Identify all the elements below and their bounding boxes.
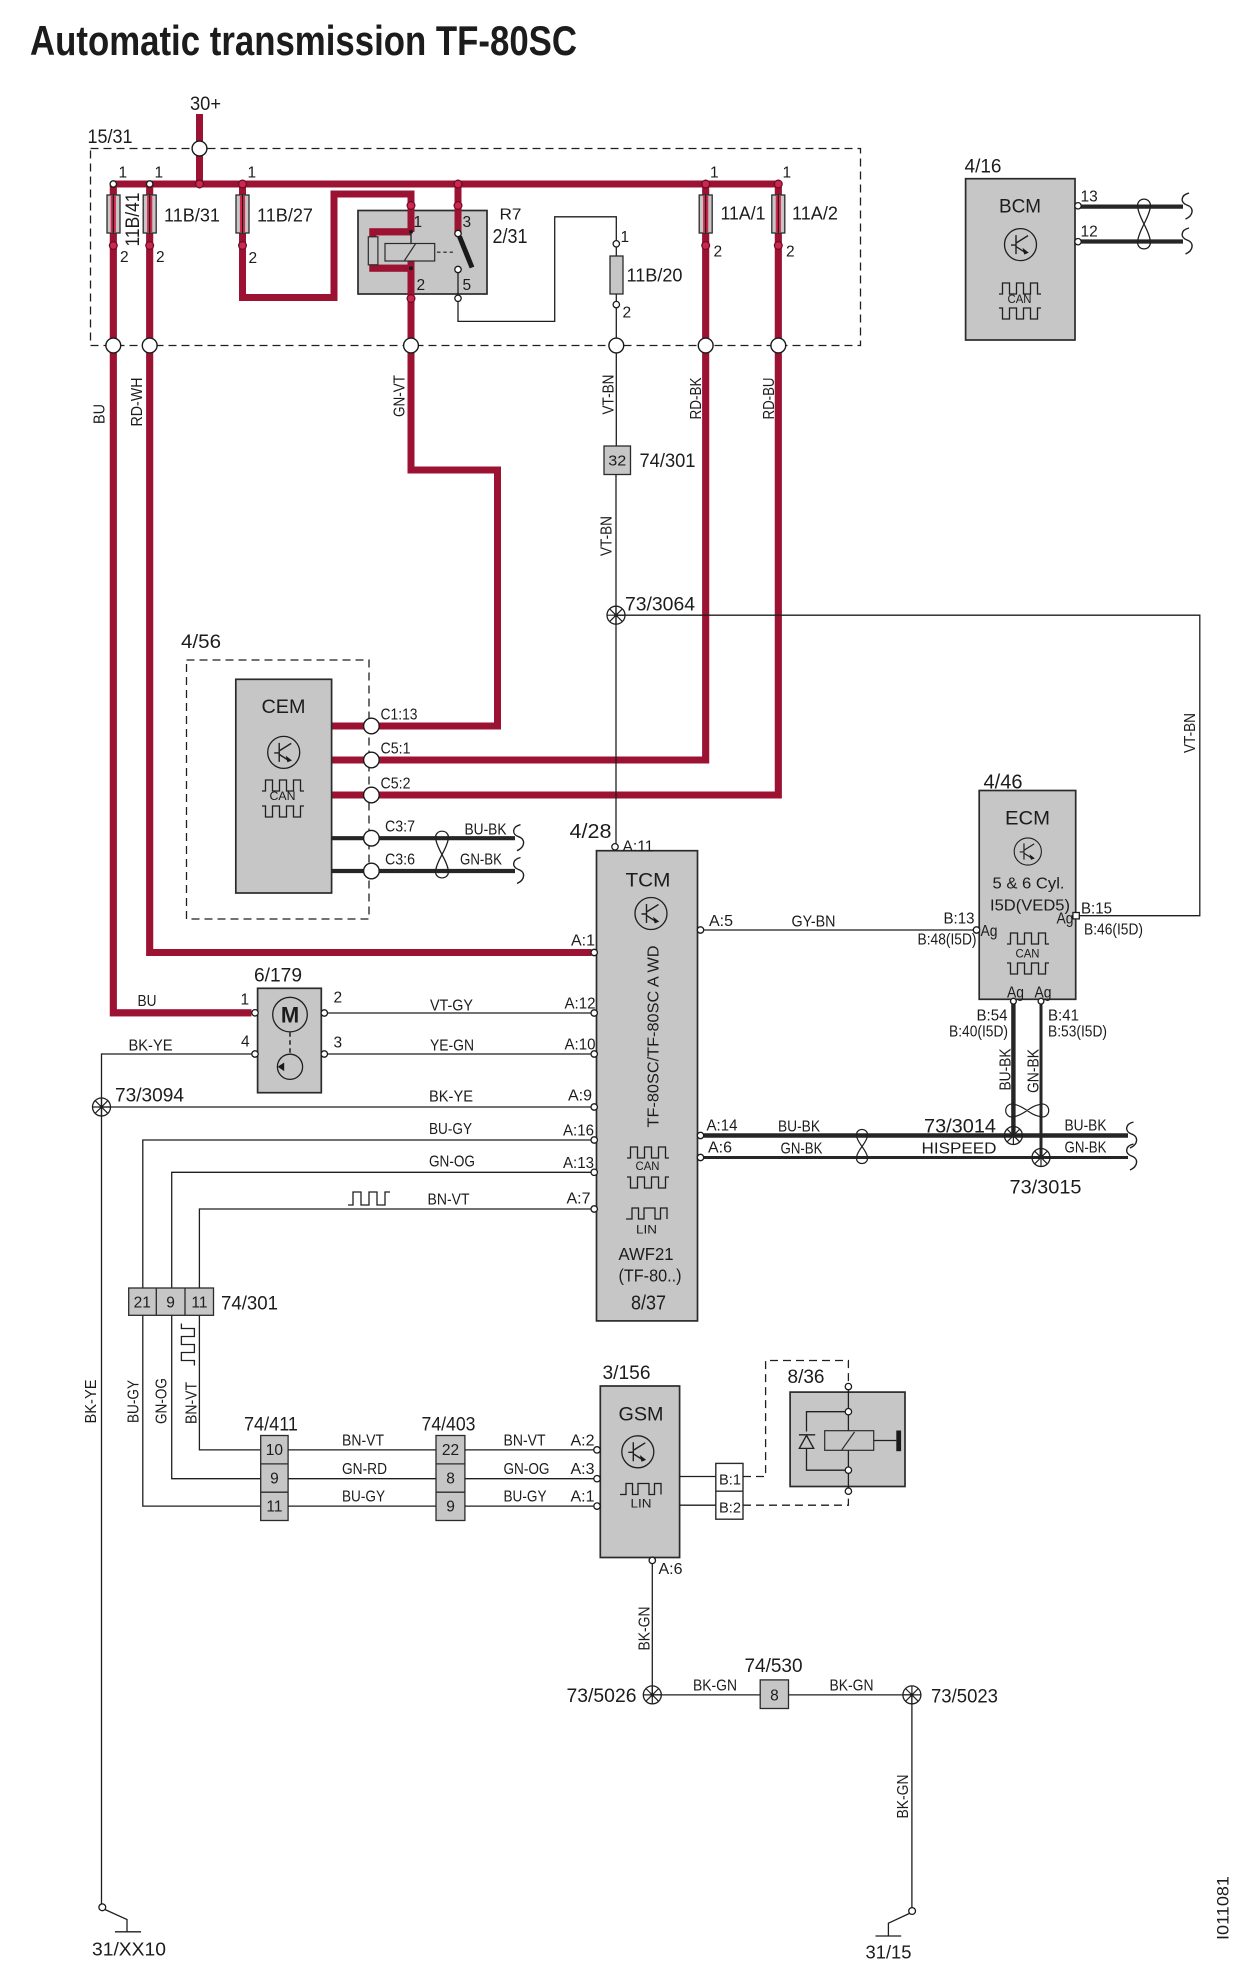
node 73/3015 [1032, 1149, 1050, 1167]
svg-text:B:46(I5D): B:46(I5D) [1084, 922, 1143, 939]
pump motor dashed shaft [289, 1032, 291, 1054]
node 73/3014 [1004, 1127, 1022, 1145]
svg-text:BK-YE: BK-YE [129, 1038, 173, 1055]
wire fuse 11B/27 branch to relay R7 pin 1 [243, 184, 412, 298]
fuse 11B/20 pin1 terminal [613, 241, 619, 247]
svg-text:GN-BK: GN-BK [460, 852, 503, 869]
svg-text:B:41: B:41 [1048, 1008, 1079, 1025]
big terminal RD-BK on dashed box bottom [698, 338, 713, 353]
TCM U4/28 body [597, 851, 698, 1321]
svg-text:BU-BK: BU-BK [998, 1048, 1015, 1091]
svg-text:BK-GN: BK-GN [895, 1775, 912, 1819]
svg-text:BU-BK: BU-BK [778, 1119, 821, 1136]
svg-text:C3:7: C3:7 [385, 819, 415, 836]
svg-text:GN-OG: GN-OG [429, 1154, 475, 1171]
relay 8/36 terminals [845, 1383, 851, 1389]
svg-text:4/16: 4/16 [965, 157, 1002, 178]
TCM pin A:11 terminal [612, 844, 618, 850]
wire end curl GN-BK right [1127, 1144, 1137, 1170]
pump motor pin terminals [252, 1010, 258, 1016]
svg-text:BU-BK: BU-BK [1065, 1118, 1108, 1135]
junction dot relay pin3 branch [454, 180, 462, 188]
TCM ECU symbol [635, 898, 667, 930]
ECM U4/46 body [979, 791, 1075, 1000]
wire BK-YE node down to ground [101, 1107, 103, 1904]
ECM bottom pin wires BU-BK / GN-BK [1011, 999, 1015, 1135]
CEM ECU symbol [268, 736, 300, 768]
wire fuse 11B/41 branch + BU feed to pump motor [113, 184, 251, 1013]
svg-text:CAN: CAN [1008, 292, 1032, 306]
terminal 11B/41 pin1 [110, 181, 116, 187]
svg-text:BK-GN: BK-GN [693, 1678, 737, 1695]
svg-text:GN-BK: GN-BK [781, 1141, 824, 1158]
wire BU-GY below 74/301 to 74/411 pin11 [143, 1316, 261, 1507]
relay R7 resistor element [368, 237, 378, 265]
junction dot 11A/1 pin2 [702, 242, 710, 250]
relay R7 coil junction dots [409, 230, 413, 234]
svg-text:15/31: 15/31 [88, 127, 133, 148]
wire fuse 11A/2 + RD-BU to CEM C5:2 [332, 184, 779, 795]
TCM pin A:9 terminal [591, 1104, 597, 1110]
fuse 11B/41 wire re-stroke [111, 196, 116, 232]
CEM pin terminal C5:2 [364, 787, 380, 803]
junction dot 11A/2 pin2 [774, 242, 782, 250]
fuse 11B/20 pin2 terminal [613, 301, 619, 307]
svg-text:73/5026: 73/5026 [567, 1685, 637, 1707]
fuse 11B/31 body [143, 195, 156, 233]
relay R7 coil-switch dashed link [437, 251, 453, 253]
svg-text:B:13: B:13 [944, 911, 975, 928]
CEM pin terminal C5:1 [364, 752, 380, 768]
relay 8/36 diode [799, 1435, 815, 1449]
svg-text:C5:1: C5:1 [381, 741, 411, 758]
svg-text:YE-GN: YE-GN [430, 1038, 474, 1055]
ground 31/XX10 [99, 1904, 106, 1911]
svg-text:BK-GN: BK-GN [637, 1607, 654, 1651]
big terminal RD-WH on dashed box bottom [142, 338, 157, 353]
svg-text:BK-GN: BK-GN [830, 1678, 874, 1695]
svg-text:A:1: A:1 [571, 933, 595, 950]
svg-text:8/36: 8/36 [788, 1366, 825, 1388]
TCM LIN symbol [626, 1208, 667, 1219]
squarewave symbol on BN-VT wire [348, 1192, 390, 1205]
svg-text:BU-GY: BU-GY [429, 1121, 472, 1138]
svg-text:5: 5 [463, 277, 472, 294]
svg-text:A:6: A:6 [659, 1561, 683, 1578]
svg-text:A:6: A:6 [708, 1140, 732, 1157]
pump motor M circle [273, 997, 308, 1032]
wire end curl GN-BK [514, 858, 524, 884]
svg-text:I011081: I011081 [1214, 1876, 1233, 1940]
svg-text:LIN: LIN [636, 1223, 657, 1237]
ECM CAN symbol [1007, 933, 1049, 944]
svg-text:BU-GY: BU-GY [504, 1489, 547, 1506]
svg-text:BCM: BCM [999, 196, 1041, 218]
svg-text:1: 1 [248, 165, 257, 182]
relay R7 switch pivot terminal [455, 230, 461, 236]
svg-text:74/411: 74/411 [244, 1414, 298, 1436]
svg-text:GY-BN: GY-BN [792, 914, 836, 931]
big terminal 30+ on dashed box [192, 141, 207, 156]
relay R7 pin5 terminal [455, 295, 461, 301]
svg-text:A:3: A:3 [571, 1461, 595, 1478]
wire GY-BN TCM A:5 to ECM B:13 [704, 929, 974, 931]
wire relay R7 pin 2 GN-VT to CEM C1:13 [332, 262, 498, 727]
wires 74/403 to GSM [465, 1450, 594, 1506]
wire BK-YE motor pin4 to node 73/3094 [102, 1054, 252, 1107]
svg-text:GN-BK: GN-BK [1026, 1048, 1043, 1093]
svg-text:3/156: 3/156 [603, 1362, 651, 1384]
svg-text:TF-80SC/TF-80SC A WD: TF-80SC/TF-80SC A WD [646, 946, 663, 1128]
wire BN-VT to TCM A:7 [199, 1209, 591, 1288]
relay R7 pin5 wire [457, 273, 459, 295]
svg-text:74/301: 74/301 [221, 1293, 278, 1315]
svg-text:5 & 6 Cyl.: 5 & 6 Cyl. [993, 876, 1065, 893]
wire BK-GN node 73/5026 to 74/530 [652, 1694, 760, 1696]
svg-text:2: 2 [120, 249, 129, 266]
svg-text:Ag: Ag [1057, 911, 1074, 928]
svg-text:CEM: CEM [262, 696, 306, 718]
GSM LIN symbol [620, 1484, 661, 1495]
CEM pin terminal C3:7 [364, 830, 380, 846]
svg-text:4/28: 4/28 [570, 821, 612, 843]
svg-text:11B/31: 11B/31 [164, 205, 220, 226]
TCM CAN symbol [627, 1147, 669, 1158]
svg-text:1: 1 [119, 165, 128, 182]
svg-text:A:2: A:2 [571, 1433, 595, 1450]
big terminal VT-BN on dashed box bottom [609, 338, 624, 353]
svg-text:31/XX10: 31/XX10 [92, 1940, 166, 1960]
junction dot 11A/1 pin1 [702, 180, 710, 188]
svg-text:BU-GY: BU-GY [342, 1489, 385, 1506]
svg-text:A:14: A:14 [707, 1118, 738, 1135]
fuse 11B/20 internal wire [615, 247, 617, 301]
svg-text:2/31: 2/31 [493, 226, 528, 248]
svg-text:12: 12 [1081, 224, 1098, 241]
CEM U4/56 body [236, 679, 332, 893]
dashed wire B:1 to relay 8/36 coil top [743, 1361, 848, 1477]
svg-text:31/15: 31/15 [866, 1942, 912, 1963]
wire VT-BN from 11B/20 down [615, 308, 617, 446]
svg-text:73/3014: 73/3014 [924, 1116, 996, 1138]
wire fuse 11A/1 + RD-BK to CEM C5:1 [332, 184, 706, 760]
svg-text:BU: BU [92, 404, 109, 424]
wire relay R7 pin 3 from bus [455, 184, 462, 234]
svg-text:9: 9 [446, 1499, 455, 1516]
svg-text:1: 1 [155, 165, 164, 182]
wire BU-BK TCM A:14 CAN high [704, 1133, 1128, 1138]
BCM CAN symbol [999, 283, 1041, 294]
BCM pin 13 wire (CAN-H) [1080, 205, 1183, 209]
junction dot 30+ at bus [196, 180, 204, 188]
svg-text:BU: BU [138, 993, 157, 1010]
wire end curl BU-BK [514, 825, 524, 851]
svg-text:2: 2 [417, 277, 426, 294]
wire 30+ feed (red) [196, 114, 203, 184]
svg-text:11: 11 [191, 1295, 207, 1312]
svg-text:GN-BK: GN-BK [1065, 1140, 1108, 1157]
svg-text:VT-GY: VT-GY [430, 998, 473, 1015]
svg-text:74/530: 74/530 [745, 1655, 803, 1677]
TCM pin A:16 terminal [591, 1137, 597, 1143]
twisted pair symbol CEM C3 [436, 831, 449, 878]
svg-text:1: 1 [621, 229, 630, 246]
svg-text:B:15: B:15 [1081, 901, 1112, 918]
svg-text:B:1: B:1 [719, 1473, 741, 1489]
ground 31/15 [909, 1908, 916, 1915]
svg-text:GN-VT: GN-VT [392, 375, 409, 417]
svg-text:11B/20: 11B/20 [627, 265, 683, 286]
svg-text:6/179: 6/179 [254, 966, 302, 987]
GSM pin A:6 terminal [649, 1557, 655, 1563]
svg-text:BN-VT: BN-VT [428, 1192, 470, 1209]
svg-text:C1:13: C1:13 [381, 707, 418, 724]
svg-text:BK-YE: BK-YE [429, 1089, 473, 1106]
wire VT-BN from node 73/3064 to ECM B:15 [616, 615, 1200, 916]
svg-text:Ag: Ag [981, 923, 998, 940]
svg-text:4: 4 [241, 1034, 250, 1051]
relay R7 pin1 terminal dot [407, 202, 415, 210]
svg-text:B:53(I5D): B:53(I5D) [1048, 1024, 1107, 1041]
fuse 11A/1 body [699, 195, 712, 233]
relay R7 coil feed wire [410, 232, 412, 244]
svg-text:A:5: A:5 [709, 913, 733, 930]
svg-text:M: M [281, 1003, 299, 1028]
BCM pin 12 wire (CAN-L) [1080, 239, 1183, 243]
node 73/5023 [903, 1686, 921, 1704]
relay R7 pin3 terminal dot [454, 202, 462, 210]
GSM ECU symbol [622, 1436, 654, 1468]
svg-text:BU-BK: BU-BK [465, 822, 508, 839]
svg-text:22: 22 [442, 1442, 459, 1459]
svg-text:RD-WH: RD-WH [129, 378, 146, 427]
wire end curl BCM 12 [1182, 228, 1192, 254]
svg-text:AWF21: AWF21 [619, 1244, 674, 1264]
wire VT-GY motor pin2 to TCM A:12 [328, 1012, 592, 1014]
svg-text:CAN: CAN [1016, 947, 1040, 961]
svg-text:ECM: ECM [1005, 808, 1050, 830]
TCM pin A:5 terminal [697, 927, 703, 933]
svg-text:1: 1 [414, 214, 423, 231]
svg-text:73/5023: 73/5023 [931, 1686, 998, 1708]
wire relay pin5 to fuse 11B/20 [458, 217, 616, 322]
connector 74/301 row body [129, 1288, 214, 1315]
svg-text:1: 1 [241, 992, 250, 1009]
svg-text:BN-VT: BN-VT [504, 1433, 546, 1450]
svg-text:A:7: A:7 [567, 1191, 591, 1208]
relay 8/36 contact link and bar [874, 1440, 897, 1442]
svg-text:Ag: Ag [1007, 985, 1024, 1002]
twisted pair symbol BCM [1138, 199, 1151, 249]
svg-text:2: 2 [334, 990, 343, 1007]
svg-text:3: 3 [334, 1035, 343, 1052]
svg-text:A:16: A:16 [563, 1123, 594, 1140]
GSM pin terminals A:2 A:3 A:1 [594, 1447, 600, 1453]
svg-text:GN-OG: GN-OG [154, 1378, 171, 1424]
fuse 11B/27 body [236, 195, 249, 233]
TCM pin A:14 terminal [697, 1132, 703, 1138]
node 73/3064 [607, 606, 625, 624]
svg-text:RD-BK: RD-BK [688, 377, 705, 420]
TCM pin A:1 terminal [591, 949, 597, 955]
wire GN-OG to TCM A:13 [172, 1172, 592, 1288]
svg-text:GN-RD: GN-RD [342, 1461, 387, 1478]
svg-text:11: 11 [266, 1499, 282, 1516]
TCM pin A:13 terminal [591, 1169, 597, 1175]
CEM pin terminal C1:13 [364, 718, 380, 734]
TCM pin A:12 terminal [591, 1010, 597, 1016]
svg-text:Automatic transmission TF-80SC: Automatic transmission TF-80SC [30, 17, 577, 64]
svg-text:B:48(I5D): B:48(I5D) [918, 932, 977, 949]
svg-text:30+: 30+ [190, 94, 221, 115]
relay 8/36 coil [825, 1431, 874, 1451]
pump motor 6/179 body [258, 988, 322, 1092]
TCM pin A:10 terminal [591, 1051, 597, 1057]
svg-text:2: 2 [714, 244, 723, 261]
svg-text:BU-GY: BU-GY [126, 1380, 143, 1423]
svg-text:(TF-80..): (TF-80..) [619, 1266, 682, 1286]
svg-text:10: 10 [266, 1442, 284, 1459]
svg-text:C5:2: C5:2 [381, 776, 411, 793]
BCM U4/16 body [966, 179, 1075, 340]
svg-text:Ag: Ag [1035, 985, 1052, 1002]
svg-text:11B/41: 11B/41 [123, 193, 144, 247]
CEM CAN symbol [262, 780, 304, 791]
svg-text:21: 21 [134, 1295, 151, 1312]
svg-text:A:10: A:10 [565, 1037, 596, 1054]
big terminal GN-VT on dashed box bottom [404, 338, 419, 353]
wire end curl BU-BK right [1127, 1122, 1137, 1148]
svg-text:B:2: B:2 [719, 1501, 741, 1517]
fuse 11B/41 body [107, 195, 120, 233]
ECM ECU symbol [1014, 838, 1041, 865]
svg-text:2: 2 [786, 244, 795, 261]
junction dot 11B/27 pin1 [239, 180, 247, 188]
connector 74/301 pin 32 box [604, 446, 631, 475]
relay 8/36 internal wires [807, 1390, 849, 1488]
svg-text:A:9: A:9 [568, 1088, 592, 1105]
fuse 11B/20 body [610, 256, 623, 294]
relay R7 body [358, 211, 487, 295]
wire BK-GN 74/530 to node 73/5023 and down to ground [789, 1695, 912, 1908]
svg-text:R7: R7 [500, 207, 522, 224]
wire BN-VT below 74/301 to 74/411 pin10 [199, 1316, 260, 1450]
TCM pin A:7 terminal [591, 1206, 597, 1212]
svg-text:13: 13 [1081, 189, 1098, 206]
svg-text:73/3015: 73/3015 [1010, 1177, 1082, 1199]
junction dot 11A/2 pin1 [774, 180, 782, 188]
svg-text:A:11: A:11 [623, 839, 654, 856]
svg-text:9: 9 [270, 1471, 279, 1488]
svg-text:8: 8 [770, 1688, 779, 1705]
CEM pin terminal C3:6 [364, 863, 380, 879]
svg-text:A:12: A:12 [565, 996, 596, 1013]
svg-text:2: 2 [623, 305, 632, 322]
svg-text:BN-VT: BN-VT [342, 1433, 384, 1450]
svg-text:GN-OG: GN-OG [504, 1461, 550, 1478]
svg-text:A:1: A:1 [571, 1489, 595, 1506]
svg-text:8/37: 8/37 [631, 1293, 666, 1315]
svg-text:73/3064: 73/3064 [625, 595, 695, 616]
junction dot 11B/27 pin2 [239, 242, 247, 250]
fuse 11A/2 body [772, 195, 785, 233]
svg-text:VT-BN: VT-BN [601, 375, 618, 415]
terminal 11B/31 pin1 [147, 181, 153, 187]
wire VT-BN below connector 32 [615, 475, 617, 844]
big terminal BU on dashed box bottom [106, 338, 121, 353]
svg-text:4/56: 4/56 [181, 632, 221, 653]
relay R7 coil [385, 244, 435, 262]
fuse box 15/31 dashed outline [91, 149, 861, 346]
svg-text:11A/1: 11A/1 [721, 203, 766, 224]
pump circle with arrow [277, 1054, 302, 1079]
svg-text:VT-BN: VT-BN [1182, 713, 1199, 753]
wire end curl BCM 13 [1182, 193, 1192, 219]
svg-text:9: 9 [166, 1295, 175, 1312]
dashed wire B:2 to relay 8/36 coil bottom [743, 1495, 848, 1506]
svg-text:73/3094: 73/3094 [115, 1086, 184, 1107]
svg-text:RD-BU: RD-BU [761, 378, 778, 420]
junction dot 11B/41 pin2 [109, 242, 117, 250]
svg-text:11B/27: 11B/27 [257, 205, 313, 226]
svg-text:8: 8 [446, 1471, 455, 1488]
svg-text:2: 2 [249, 250, 258, 267]
svg-text:C3:6: C3:6 [385, 852, 415, 869]
GSM U3/156 body [600, 1386, 679, 1558]
wire fuse 11B/31 branch + RD-WH feed to TCM A:1 [150, 184, 592, 953]
svg-text:2: 2 [156, 249, 165, 266]
BCM pin 12 terminal [1075, 239, 1081, 245]
svg-text:LIN: LIN [631, 1497, 652, 1511]
svg-text:VT-BN: VT-BN [599, 516, 616, 556]
relay R7 pin2 terminal dot [407, 295, 415, 303]
wire GN-BK TCM A:6 CAN low [704, 1156, 1128, 1159]
wires 74/411 to 74/403 [288, 1450, 436, 1506]
wire main red bus 30+ [113, 181, 778, 188]
svg-text:1: 1 [710, 165, 719, 182]
GSM right wires to B:1 B:2 [680, 1477, 716, 1506]
node 73/3094 [93, 1098, 111, 1116]
svg-text:74/403: 74/403 [422, 1414, 476, 1436]
junction dot 11B/31 pin2 [146, 242, 154, 250]
wire relay R7 resistor loop [373, 232, 411, 268]
CEM dashed connector box [187, 660, 370, 919]
twisted pair symbol ECM drop [1006, 1104, 1049, 1117]
svg-text:TCM: TCM [626, 870, 671, 892]
svg-text:1: 1 [783, 165, 792, 182]
CEM C3:7 wire BU-BK [332, 836, 515, 840]
svg-text:B:54: B:54 [977, 1008, 1008, 1025]
CEM C3:6 wire GN-BK [332, 869, 515, 873]
ECM pin B:13 terminal [973, 927, 979, 933]
GSM pin A:6 wire BK-GN down [651, 1561, 653, 1695]
big terminal RD-BU on dashed box bottom [771, 338, 786, 353]
BCM pin 13 terminal [1075, 203, 1081, 209]
svg-text:B:40(I5D): B:40(I5D) [949, 1024, 1008, 1041]
relay 8/36 body [790, 1392, 905, 1486]
svg-text:BN-VT: BN-VT [184, 1382, 201, 1424]
squarewave symbol on BN-VT drop (rotated) [181, 1324, 194, 1366]
svg-text:GSM: GSM [619, 1404, 664, 1426]
wire YE-GN motor pin3 to TCM A:10 [328, 1053, 592, 1055]
connector boxes B:1 B:2 [716, 1463, 743, 1519]
svg-text:CAN: CAN [270, 791, 296, 803]
relay R7 switch blade [460, 237, 473, 268]
wire BK-YE node to TCM A:9 [102, 1106, 592, 1108]
svg-text:11A/2: 11A/2 [792, 203, 838, 224]
BCM ECU symbol [1005, 229, 1037, 261]
svg-text:3: 3 [463, 214, 472, 231]
